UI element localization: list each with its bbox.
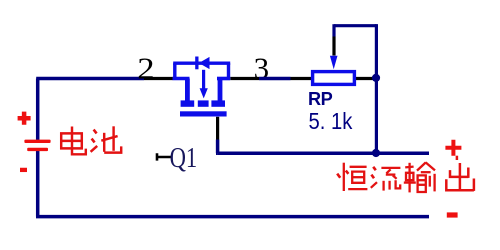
label 电池 (battery) : glyph 电 (61, 127, 86, 155)
transistor Q1: left channel pad (181, 100, 195, 106)
wire: node 3 between Q1 and RP (259, 77, 291, 81)
pin 1 of RP (black pin stub, left) (291, 77, 313, 80)
svg-text:Q1: Q1 (170, 142, 198, 174)
battery minus sign (20, 168, 27, 172)
pin 2 of RP (black pin stub, right) (355, 77, 373, 80)
transistor Q1: right drop bar (218, 79, 223, 101)
transistor Q1: substrate arrow head (200, 88, 208, 98)
label 恒流输出 (constant current output) : glyph 恒 (337, 163, 367, 191)
transistor Q1: right source stub at pin level (217, 77, 230, 81)
wire: left vertical from node 2 down to battery + plate (36, 79, 40, 140)
pin 2 of Q1 (black pin stub) (144, 77, 173, 80)
wire: elbow from Q1 gate pin to output rail (216, 140, 218, 154)
transistor Q1: substrate arrow shaft (points down) (202, 70, 205, 90)
wire: middle output rail (drain of Q1 to output plus) (218, 151, 429, 155)
wire: top rail from battery to node 2 (36, 77, 144, 81)
pin 3 of RP (black wiper pin) (332, 37, 335, 56)
transistor Q1: right channel pad (211, 100, 225, 106)
transistor Q1: body-diode right vertical (227, 63, 230, 78)
transistor Q1: body-diode top bar (173, 62, 230, 65)
pin 1 of Q1 (black gate pin) (216, 117, 219, 140)
junction node at RP right terminal (372, 74, 380, 82)
transistor Q1: middle channel pad (198, 100, 209, 106)
battery BT: minus plate (short) (27, 148, 48, 151)
potentiometer RP: wiper arrow head (330, 56, 338, 70)
transistor Q1: left source stub at pin level (173, 77, 190, 81)
wire: right vertical from wiper loop down through junctions (375, 24, 378, 153)
transistor Q1: body-diode left vertical (173, 63, 176, 78)
svg-text:5. 1k: 5. 1k (309, 108, 353, 135)
svg-text:RP: RP (308, 89, 333, 109)
transistor Q1: diode cathode bar (195, 57, 198, 70)
wire: wiper feedback top horizontal (334, 24, 376, 27)
glyph 输 (404, 162, 435, 192)
wire: left vertical from battery - plate down to bottom rail (36, 150, 40, 216)
transistor Q1: diode triangle (points left) (199, 57, 210, 69)
designator tick before Q1 (157, 153, 172, 160)
battery BT: plus plate (long) (24, 140, 50, 143)
output minus sign (447, 212, 458, 217)
glyph 出 (446, 156, 474, 191)
output plus sign (445, 140, 461, 156)
transistor Q1: gate plate bar (180, 111, 227, 116)
label 电池 (battery) : glyph 池 (91, 126, 122, 152)
transistor Q1: left drop bar (185, 79, 190, 101)
potentiometer RP: body rectangle (313, 72, 355, 85)
pin 3 of Q1 (black pin stub) (230, 77, 259, 80)
battery plus sign (18, 112, 31, 125)
glyph 流 (371, 167, 401, 191)
junction node at output rail (372, 149, 380, 157)
wire: bottom rail from battery to output minus (36, 215, 429, 219)
svg-text:2: 2 (137, 52, 154, 86)
wire: wiper vertical stub below top rail (332, 24, 335, 36)
